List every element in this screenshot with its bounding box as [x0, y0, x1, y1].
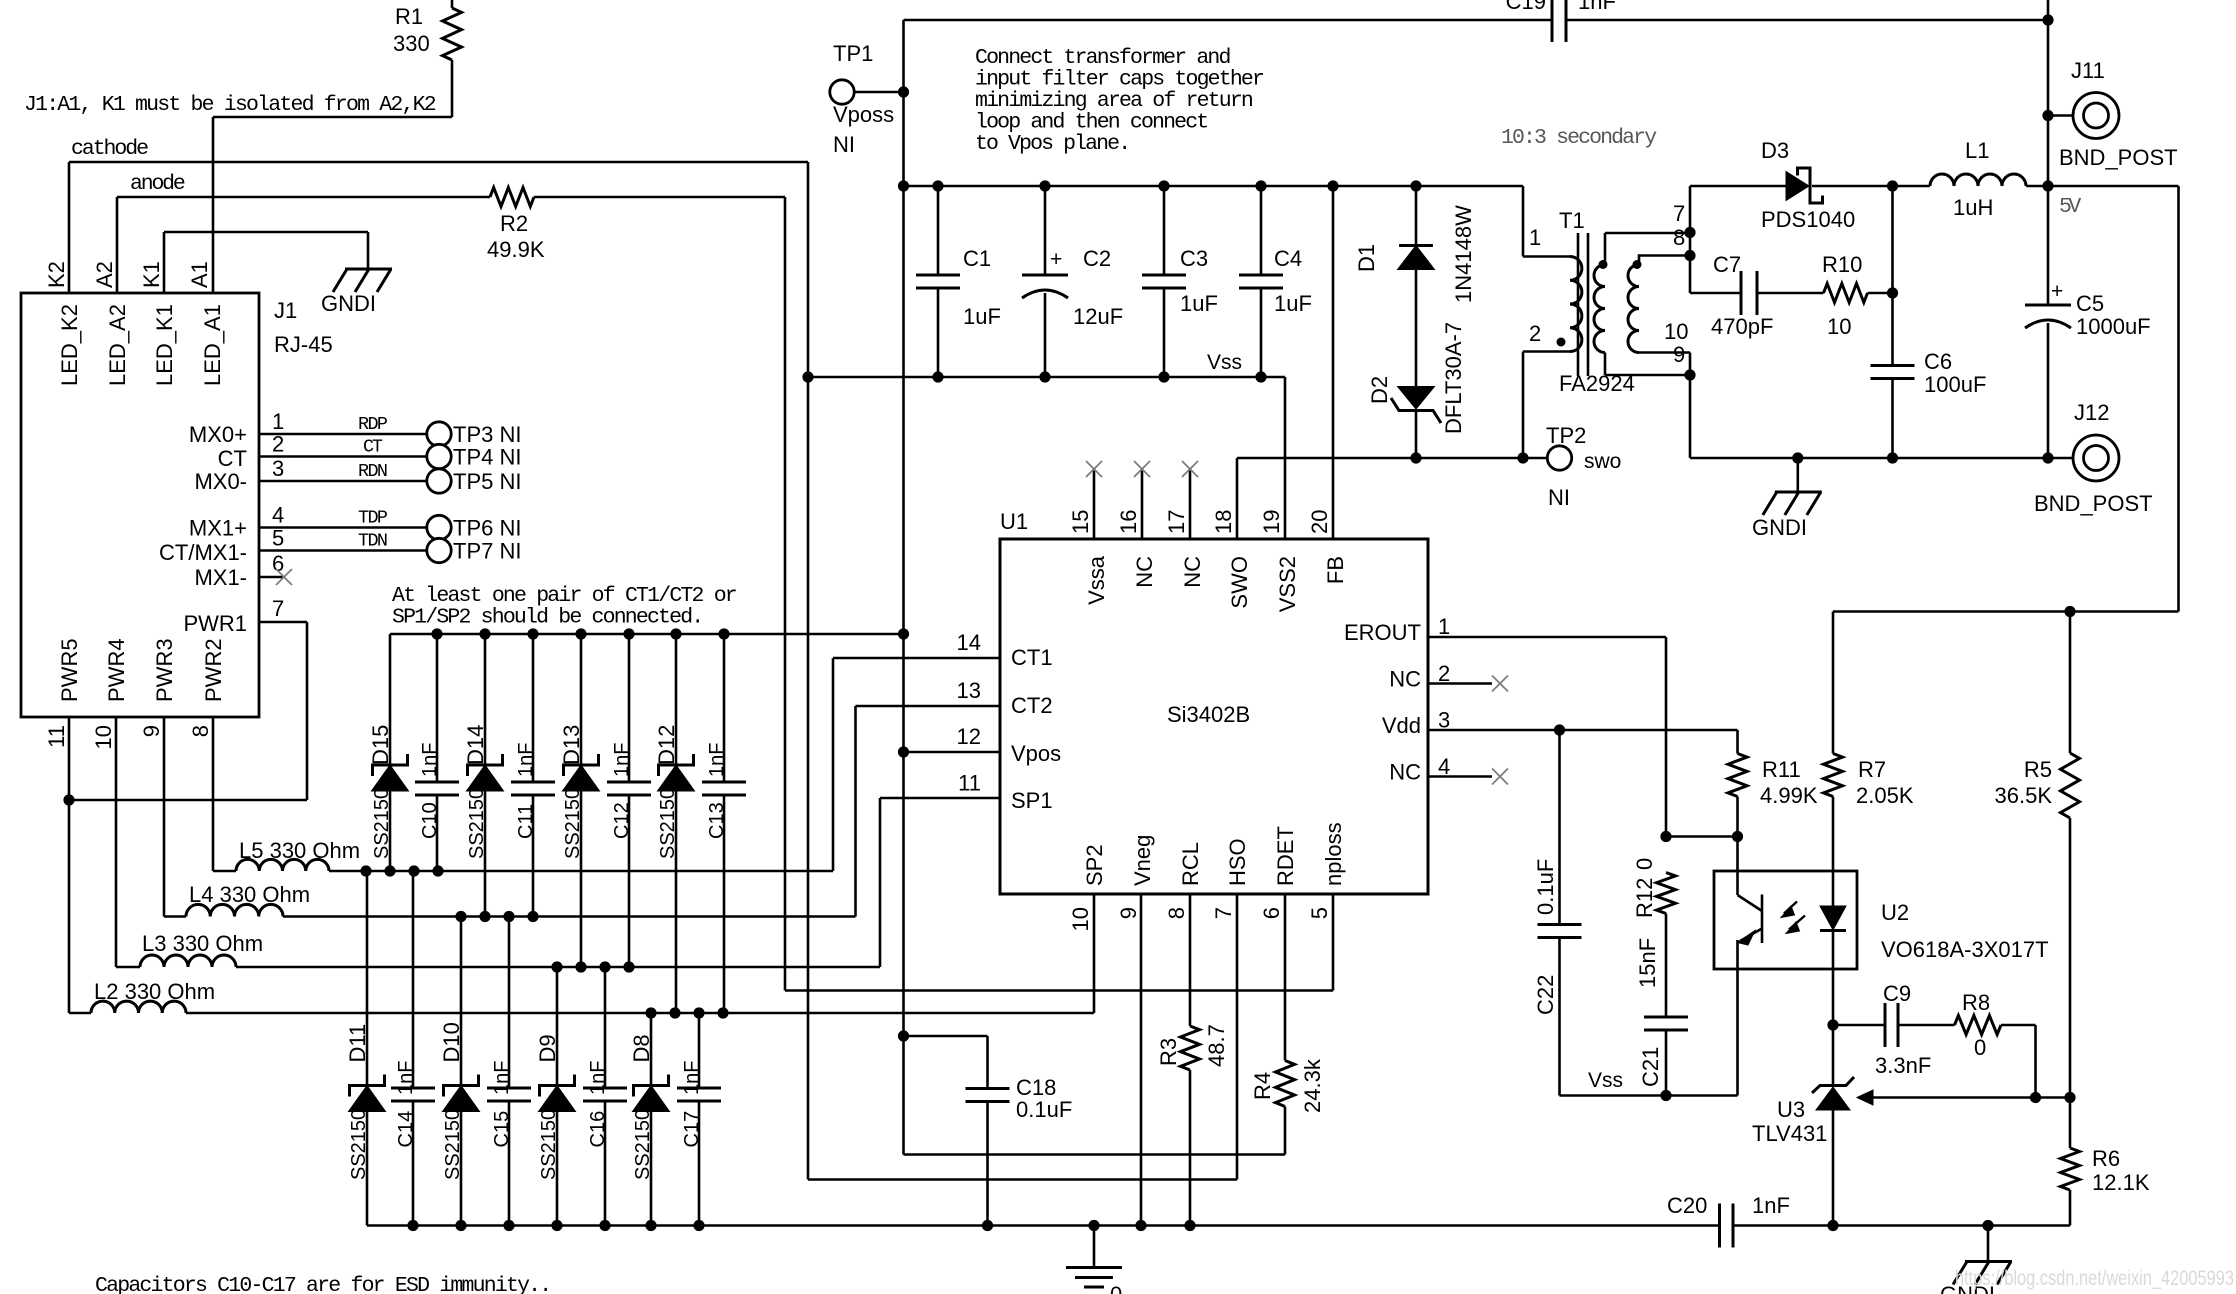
svg-text:R4: R4 [1250, 1072, 1275, 1100]
test point TP2 swo NI [1547, 446, 1571, 470]
svg-text:4: 4 [272, 503, 284, 528]
bind post J11 [2048, 114, 2073, 117]
svg-text:D1: D1 [1354, 244, 1379, 272]
diode D12 SS2150 [675, 634, 678, 765]
svg-text:LED_K1: LED_K1 [152, 304, 177, 386]
wire Vpos rail vertical [902, 20, 905, 1155]
svg-text:SS2150: SS2150 [348, 1109, 370, 1180]
resistor R7 2.05K [1832, 612, 1835, 754]
svg-text:1nF: 1nF [395, 1061, 417, 1095]
capacitor C9 3.3nF [1833, 1024, 1885, 1027]
svg-text:J1: J1 [274, 298, 297, 323]
resistor R4 24.3k [1284, 894, 1287, 1061]
wire L4 output CT2 row [283, 915, 856, 918]
svg-text:J12: J12 [2074, 400, 2109, 425]
svg-text:CT: CT [363, 437, 383, 458]
svg-text:A2: A2 [92, 261, 117, 288]
wire C7 R10 snubber [1690, 292, 1741, 295]
svg-text:SS2150: SS2150 [371, 788, 393, 859]
wire T1 pin8 [1639, 256, 1690, 265]
svg-text:10: 10 [1827, 314, 1851, 339]
svg-text:D15: D15 [368, 725, 393, 765]
svg-text:48.7: 48.7 [1204, 1024, 1229, 1067]
wire PWR5 pin11 [68, 717, 71, 1013]
svg-text:MX1-: MX1- [194, 565, 247, 590]
svg-text:12: 12 [957, 724, 981, 749]
svg-text:D3: D3 [1761, 138, 1789, 163]
svg-text:3: 3 [272, 456, 284, 481]
resistor R6 12.1K [2069, 1098, 2072, 1149]
svg-text:R6: R6 [2092, 1146, 2120, 1171]
svg-text:LED_A1: LED_A1 [200, 304, 225, 386]
svg-text:U1: U1 [1000, 509, 1028, 534]
resistor R10 10 [1824, 284, 1868, 303]
diode D13 SS2150 [580, 634, 583, 765]
svg-text:Si3402B: Si3402B [1167, 702, 1250, 727]
svg-text:D12: D12 [654, 725, 679, 765]
capacitor C13 1nF [723, 634, 726, 782]
svg-text:NI: NI [1548, 485, 1570, 510]
svg-text:FB: FB [1323, 556, 1348, 584]
svg-text:0: 0 [1974, 1035, 1986, 1060]
svg-text:TLV431: TLV431 [1752, 1121, 1827, 1146]
test point TP6 [427, 515, 451, 539]
svg-text:C11: C11 [515, 804, 537, 839]
svg-text:R3: R3 [1156, 1038, 1181, 1066]
svg-text:5: 5 [1307, 907, 1332, 919]
wire L5 output CT1 row [329, 870, 833, 873]
svg-text:MX0+: MX0+ [189, 422, 247, 447]
wire Vss line right [1560, 1094, 1738, 1097]
diode D1 1N4148W [1415, 186, 1418, 246]
svg-text:15: 15 [1068, 510, 1093, 534]
svg-text:TP4 NI: TP4 NI [453, 445, 521, 470]
resistor R8 0 [1898, 1024, 1955, 1027]
svg-text:SS2150: SS2150 [538, 1109, 560, 1180]
svg-text:R11: R11 [1762, 757, 1801, 782]
svg-text:HSO: HSO [1225, 838, 1250, 886]
svg-text:SP1: SP1 [1011, 788, 1053, 813]
svg-text:K1: K1 [139, 261, 164, 288]
inductor L5 330 Ohm [213, 870, 236, 873]
svg-text:24.3k: 24.3k [1300, 1058, 1325, 1113]
capacitor C6 100uF [1891, 186, 1894, 366]
svg-text:EROUT: EROUT [1344, 620, 1421, 645]
svg-text:TP6 NI: TP6 NI [453, 516, 521, 541]
svg-text:TP2: TP2 [1546, 423, 1586, 448]
svg-text:1000uF: 1000uF [2076, 314, 2151, 339]
diode D2 DFLT30A-7 TVS [1398, 387, 1435, 410]
wire pin9 Vneg [1140, 894, 1143, 1226]
no-connect MX1- [259, 576, 284, 579]
svg-text:12.1K: 12.1K [2092, 1170, 2150, 1195]
svg-text:TP1: TP1 [833, 41, 873, 66]
wire Vpos bus of diode array [390, 633, 904, 636]
svg-text:K2: K2 [44, 261, 69, 288]
capacitor C22 0.1uF [1558, 730, 1561, 925]
wire pin18 SWO [1236, 458, 1239, 539]
svg-text:BND_POST: BND_POST [2034, 491, 2153, 516]
test point TP5 [427, 469, 451, 493]
svg-text:PWR5: PWR5 [57, 638, 82, 702]
inductor L4 330 Ohm [164, 915, 186, 918]
svg-text:18: 18 [1211, 510, 1236, 534]
wire GNDI rail secondary [1690, 457, 2074, 460]
svg-text:C2: C2 [1083, 246, 1111, 271]
svg-text:2.05K: 2.05K [1856, 783, 1914, 808]
svg-text:DFLT30A-7: DFLT30A-7 [1441, 322, 1466, 434]
svg-text:Connect transformer and: Connect transformer and [975, 46, 1231, 70]
svg-text:anode: anode [130, 172, 186, 196]
U3 reference arrow [1872, 1096, 2070, 1099]
svg-text:C21: C21 [1638, 1047, 1663, 1087]
svg-text:C13: C13 [706, 802, 728, 839]
svg-text:SS2150: SS2150 [562, 788, 584, 859]
T1 primary winding [1570, 257, 1582, 352]
ground GNDI near C6 [1797, 458, 1800, 492]
svg-text:L4 330 Ohm: L4 330 Ohm [189, 882, 310, 907]
svg-text:PWR3: PWR3 [152, 638, 177, 702]
svg-text:D9: D9 [535, 1034, 560, 1062]
U2 transistor [1736, 837, 1739, 896]
wire MX0- RDN to TP5 [259, 480, 427, 483]
svg-text:1nF: 1nF [1578, 0, 1616, 14]
wire pin11 SP1 [880, 797, 1000, 800]
svg-text:0.1uF: 0.1uF [1016, 1097, 1072, 1122]
svg-text:SS2150: SS2150 [442, 1109, 464, 1180]
IC U1 Si3402B [1000, 539, 1428, 894]
wire anode SP2 row [784, 197, 787, 991]
svg-text:0.1uF: 0.1uF [1533, 859, 1558, 915]
svg-text:J11: J11 [2071, 58, 2105, 83]
svg-text:C16: C16 [587, 1111, 609, 1148]
svg-text:1: 1 [272, 409, 284, 434]
wire pin20 FB [1332, 187, 1335, 539]
test point TP3 [427, 422, 451, 446]
wire L3 output SP1 row [236, 966, 880, 969]
svg-text:R5: R5 [2024, 757, 2052, 782]
svg-text:C4: C4 [1274, 246, 1302, 271]
svg-text:NI: NI [833, 132, 855, 157]
wire Vss line [808, 376, 1285, 379]
svg-text:CT2: CT2 [1011, 693, 1053, 718]
diode D11 SS2150 [366, 871, 369, 1086]
svg-text:4.99K: 4.99K [1760, 783, 1818, 808]
capacitor C1 1uF [937, 186, 940, 275]
svg-text:PWR1: PWR1 [183, 611, 247, 636]
svg-text:cathode: cathode [71, 137, 149, 161]
svg-text:minimizing area of return: minimizing area of return [975, 89, 1254, 113]
wire Vneg bottom bus [367, 1224, 1720, 1227]
optocoupler U2 VO618A-3X017T [1714, 871, 1857, 969]
capacitor C16 1nF [604, 967, 607, 1088]
svg-text:CT: CT [218, 446, 247, 471]
svg-text:NC: NC [1180, 556, 1205, 588]
svg-text:11: 11 [958, 771, 981, 796]
wire pin14 CT1 [833, 657, 1000, 660]
svg-text:VO618A-3X017T: VO618A-3X017T [1881, 937, 2049, 962]
svg-text:D10: D10 [439, 1022, 464, 1062]
svg-text:1: 1 [1438, 614, 1450, 639]
svg-text:C14: C14 [395, 1111, 417, 1148]
svg-text:100uF: 100uF [1924, 372, 1986, 397]
svg-text:1nF: 1nF [1752, 1193, 1790, 1218]
svg-text:+: + [1050, 248, 1062, 271]
svg-text:C12: C12 [611, 802, 633, 839]
svg-text:R12: R12 [1632, 878, 1657, 918]
svg-text:19: 19 [1259, 510, 1284, 534]
svg-text:U2: U2 [1881, 900, 1909, 925]
svg-text:3.3nF: 3.3nF [1875, 1053, 1931, 1078]
svg-text:Vpos: Vpos [1011, 741, 1061, 766]
ground GNDI top-left [345, 268, 392, 271]
svg-text:0: 0 [1110, 1282, 1122, 1294]
svg-text:8: 8 [1164, 907, 1189, 919]
svg-text:C3: C3 [1180, 246, 1208, 271]
wire PWR3 pin9 [163, 717, 166, 917]
svg-text:TP7 NI: TP7 NI [453, 539, 521, 564]
capacitor C3 1uF [1163, 186, 1166, 275]
test point TP7 [427, 538, 451, 562]
svg-text:C7: C7 [1713, 252, 1741, 277]
svg-text:TDP: TDP [358, 508, 388, 529]
wire T1 pin2 [1523, 350, 1570, 353]
svg-text:R7: R7 [1858, 757, 1886, 782]
svg-text:C5: C5 [2076, 291, 2104, 316]
svg-text:input filter caps together: input filter caps together [975, 68, 1265, 92]
T1 phase dot secondary A [1599, 260, 1608, 269]
svg-text:D11: D11 [345, 1024, 370, 1063]
T1 core [1577, 233, 1580, 376]
wire T1 pin1 [1522, 186, 1525, 257]
svg-text:TP5 NI: TP5 NI [453, 469, 521, 494]
svg-text:loop and then connect: loop and then connect [975, 111, 1209, 135]
wire cathode-Vss vertical [807, 162, 810, 1180]
svg-text:LED_K2: LED_K2 [57, 304, 82, 386]
svg-text:1nF: 1nF [706, 743, 728, 777]
svg-text:RDP: RDP [358, 414, 388, 435]
capacitor C12 1nF [628, 634, 631, 782]
svg-text:Vneg: Vneg [1130, 835, 1155, 886]
svg-text:C20: C20 [1667, 1193, 1707, 1218]
wire swo net [1237, 457, 1416, 460]
svg-text:16: 16 [1116, 510, 1141, 534]
inductor L3 330 Ohm [116, 966, 140, 969]
test point TP4 [427, 444, 451, 468]
wire CT/MX1- TDN to TP7 [259, 549, 427, 552]
svg-text:R1: R1 [395, 4, 423, 29]
svg-text:T1: T1 [1559, 208, 1585, 233]
svg-text:7: 7 [1673, 201, 1685, 226]
capacitor C18 0.1uF [904, 1035, 988, 1038]
svg-text:TDN: TDN [358, 531, 388, 552]
svg-text:RDET: RDET [1273, 826, 1298, 886]
diode D8 SS2150 [650, 1013, 653, 1086]
resistor R11 4.99K [1736, 730, 1739, 754]
svg-text:12uF: 12uF [1073, 304, 1123, 329]
svg-text:C19: C19 [1506, 0, 1546, 14]
svg-text:36.5K: 36.5K [1995, 783, 2053, 808]
svg-text:SP1/SP2 should be connected.: SP1/SP2 should be connected. [392, 606, 704, 630]
svg-text:+: + [2051, 280, 2063, 303]
shunt reference U3 TLV431 [1832, 1025, 1835, 1086]
svg-text:PDS1040: PDS1040 [1761, 207, 1855, 232]
junction pins 7 8 9 [1689, 186, 1692, 293]
wire top C19 row [904, 19, 1553, 22]
svg-text:C6: C6 [1924, 349, 1952, 374]
T1 secondary winding A [1594, 265, 1605, 353]
svg-text:C1: C1 [963, 246, 991, 271]
resistor R2 [490, 188, 534, 207]
svg-text:Vposs: Vposs [833, 102, 894, 127]
svg-text:5: 5 [272, 526, 284, 551]
svg-text:17: 17 [1164, 510, 1189, 534]
diode D9 SS2150 [556, 967, 559, 1086]
wire K1 to GNDI [163, 232, 166, 293]
svg-text:LED_A2: LED_A2 [105, 304, 130, 386]
svg-text:C10: C10 [419, 802, 441, 839]
bind post J12 [2073, 435, 2119, 481]
svg-text:GNDI: GNDI [321, 291, 376, 316]
wire L2 output SP2 row [186, 1012, 1094, 1015]
wire pin3 Vdd [1428, 729, 1738, 732]
svg-text:13: 13 [957, 678, 981, 703]
U2 light arrows [1784, 902, 1797, 914]
svg-text:D14: D14 [463, 725, 488, 765]
svg-text:9: 9 [1116, 907, 1141, 919]
resistor R5 36.5K [2069, 612, 2072, 754]
capacitor C20 1nF [1718, 1204, 1721, 1248]
connector J1 RJ-45 [21, 293, 259, 717]
wire CT to TP4 [259, 455, 427, 458]
svg-text:1nF: 1nF [419, 743, 441, 777]
svg-text:C22: C22 [1533, 975, 1558, 1015]
svg-text:BND_POST: BND_POST [2059, 145, 2178, 170]
wire R4 to Vpos [904, 1153, 1286, 1156]
capacitor C14 1nF [412, 871, 415, 1088]
svg-text:470pF: 470pF [1711, 314, 1773, 339]
svg-text:1nF: 1nF [681, 1061, 703, 1095]
svg-text:20: 20 [1307, 510, 1332, 534]
capacitor C21 15nF [1644, 1016, 1688, 1019]
T1 phase dot secondary B [1633, 260, 1642, 269]
diode D14 SS2150 [484, 634, 487, 765]
inductor L1 1uH [1893, 185, 1931, 188]
svg-text:10: 10 [1068, 907, 1093, 931]
wire pin7 HSO [1236, 894, 1239, 1180]
resistor R3 48.7 [1189, 894, 1192, 1026]
svg-text:Vss: Vss [1588, 1069, 1623, 1092]
svg-text:10:3 secondary: 10:3 secondary [1501, 126, 1657, 150]
wire bottom right bus [1733, 1224, 2070, 1227]
capacitor C10 1nF [436, 634, 439, 782]
wire T1 pin7 [1605, 232, 1690, 235]
wire anode [117, 196, 490, 199]
svg-text:NC: NC [1132, 556, 1157, 588]
svg-text:NC: NC [1389, 760, 1421, 785]
wire swo to D3 [1689, 375, 1692, 458]
svg-text:U3: U3 [1777, 1097, 1805, 1122]
wire R1 to A1 [213, 116, 452, 119]
wire pin1 EROUT [1428, 636, 1666, 639]
ground GNDI bottom right [1987, 1226, 1990, 1262]
U2 LED [1832, 797, 1835, 907]
svg-text:to Vpos plane.: to Vpos plane. [975, 132, 1131, 156]
svg-text:A1: A1 [187, 261, 212, 288]
svg-text:7: 7 [1211, 907, 1236, 919]
diode D3 PDS1040 schottky [1786, 172, 1809, 201]
wire PWR1 loop [259, 621, 307, 624]
svg-text:J1:A1, K1 must be isolated fro: J1:A1, K1 must be isolated from A2,K2 [24, 93, 437, 117]
svg-text:330: 330 [393, 31, 430, 56]
svg-text:49.9K: 49.9K [487, 237, 545, 262]
T1 phase dot primary [1557, 338, 1566, 347]
svg-text:1nF: 1nF [515, 743, 537, 777]
svg-text:Vss: Vss [1207, 351, 1242, 374]
wire MX0+ RDP to TP3 [259, 433, 427, 436]
svg-text:C15: C15 [491, 1111, 513, 1148]
capacitor C2 12uF polarized [1044, 186, 1047, 275]
svg-text:SWO: SWO [1227, 556, 1252, 609]
svg-text:L2 330 Ohm: L2 330 Ohm [94, 979, 215, 1004]
svg-text:D8: D8 [629, 1034, 654, 1062]
capacitor C4 1uF [1260, 186, 1263, 275]
svg-text:10: 10 [1664, 319, 1688, 344]
svg-text:9: 9 [1673, 342, 1685, 367]
test point TP1 Vposs NI [830, 80, 854, 104]
svg-text:RCL: RCL [1178, 842, 1203, 886]
capacitor C19 [1551, 0, 1554, 42]
svg-text:1uH: 1uH [1953, 195, 1993, 220]
svg-text:15nF: 15nF [1635, 938, 1660, 988]
svg-text:VSS2: VSS2 [1275, 556, 1300, 612]
svg-text:At least one pair of CT1/CT2 o: At least one pair of CT1/CT2 or [392, 584, 738, 608]
svg-text:Vssa: Vssa [1084, 555, 1109, 605]
wire pin12 Vpos [904, 751, 1001, 754]
wire pin13 CT2 [856, 705, 1001, 708]
svg-text:6: 6 [1259, 907, 1284, 919]
svg-text:PWR2: PWR2 [201, 638, 226, 702]
svg-text:https://blog.csdn.net/weixin_4: https://blog.csdn.net/weixin_42005993 [1955, 1267, 2234, 1290]
svg-text:nploss: nploss [1321, 822, 1346, 886]
wire cathode [69, 161, 808, 164]
svg-text:SP2: SP2 [1082, 844, 1107, 886]
capacitor C5 1000uF polarized [2025, 304, 2071, 307]
svg-text:TP3 NI: TP3 NI [453, 422, 521, 447]
svg-text:0: 0 [1632, 858, 1657, 870]
no-connect pin4 [1428, 775, 1492, 778]
wire MX1+ TDP to TP6 [259, 526, 427, 529]
svg-text:1uF: 1uF [963, 304, 1001, 329]
svg-text:1nF: 1nF [587, 1061, 609, 1095]
inductor L2 330 Ohm [69, 1012, 91, 1015]
svg-text:7: 7 [272, 596, 284, 621]
diode D15 SS2150 [389, 634, 392, 765]
svg-text:R2: R2 [500, 211, 528, 236]
capacitor C15 1nF [508, 917, 511, 1089]
no-connect pin16 [1141, 469, 1144, 539]
no-connect pin17 [1189, 469, 1192, 539]
ground earth 0 [1093, 1226, 1096, 1268]
wire T1 pin10 [1639, 351, 1690, 354]
svg-text:MX0-: MX0- [194, 469, 247, 494]
svg-text:R10: R10 [1822, 252, 1862, 277]
svg-text:L1: L1 [1965, 138, 1989, 163]
no-connect pin15 [1093, 469, 1096, 539]
svg-text:RDN: RDN [358, 461, 388, 482]
svg-text:C17: C17 [681, 1111, 703, 1148]
svg-text:CT/MX1-: CT/MX1- [159, 540, 247, 565]
